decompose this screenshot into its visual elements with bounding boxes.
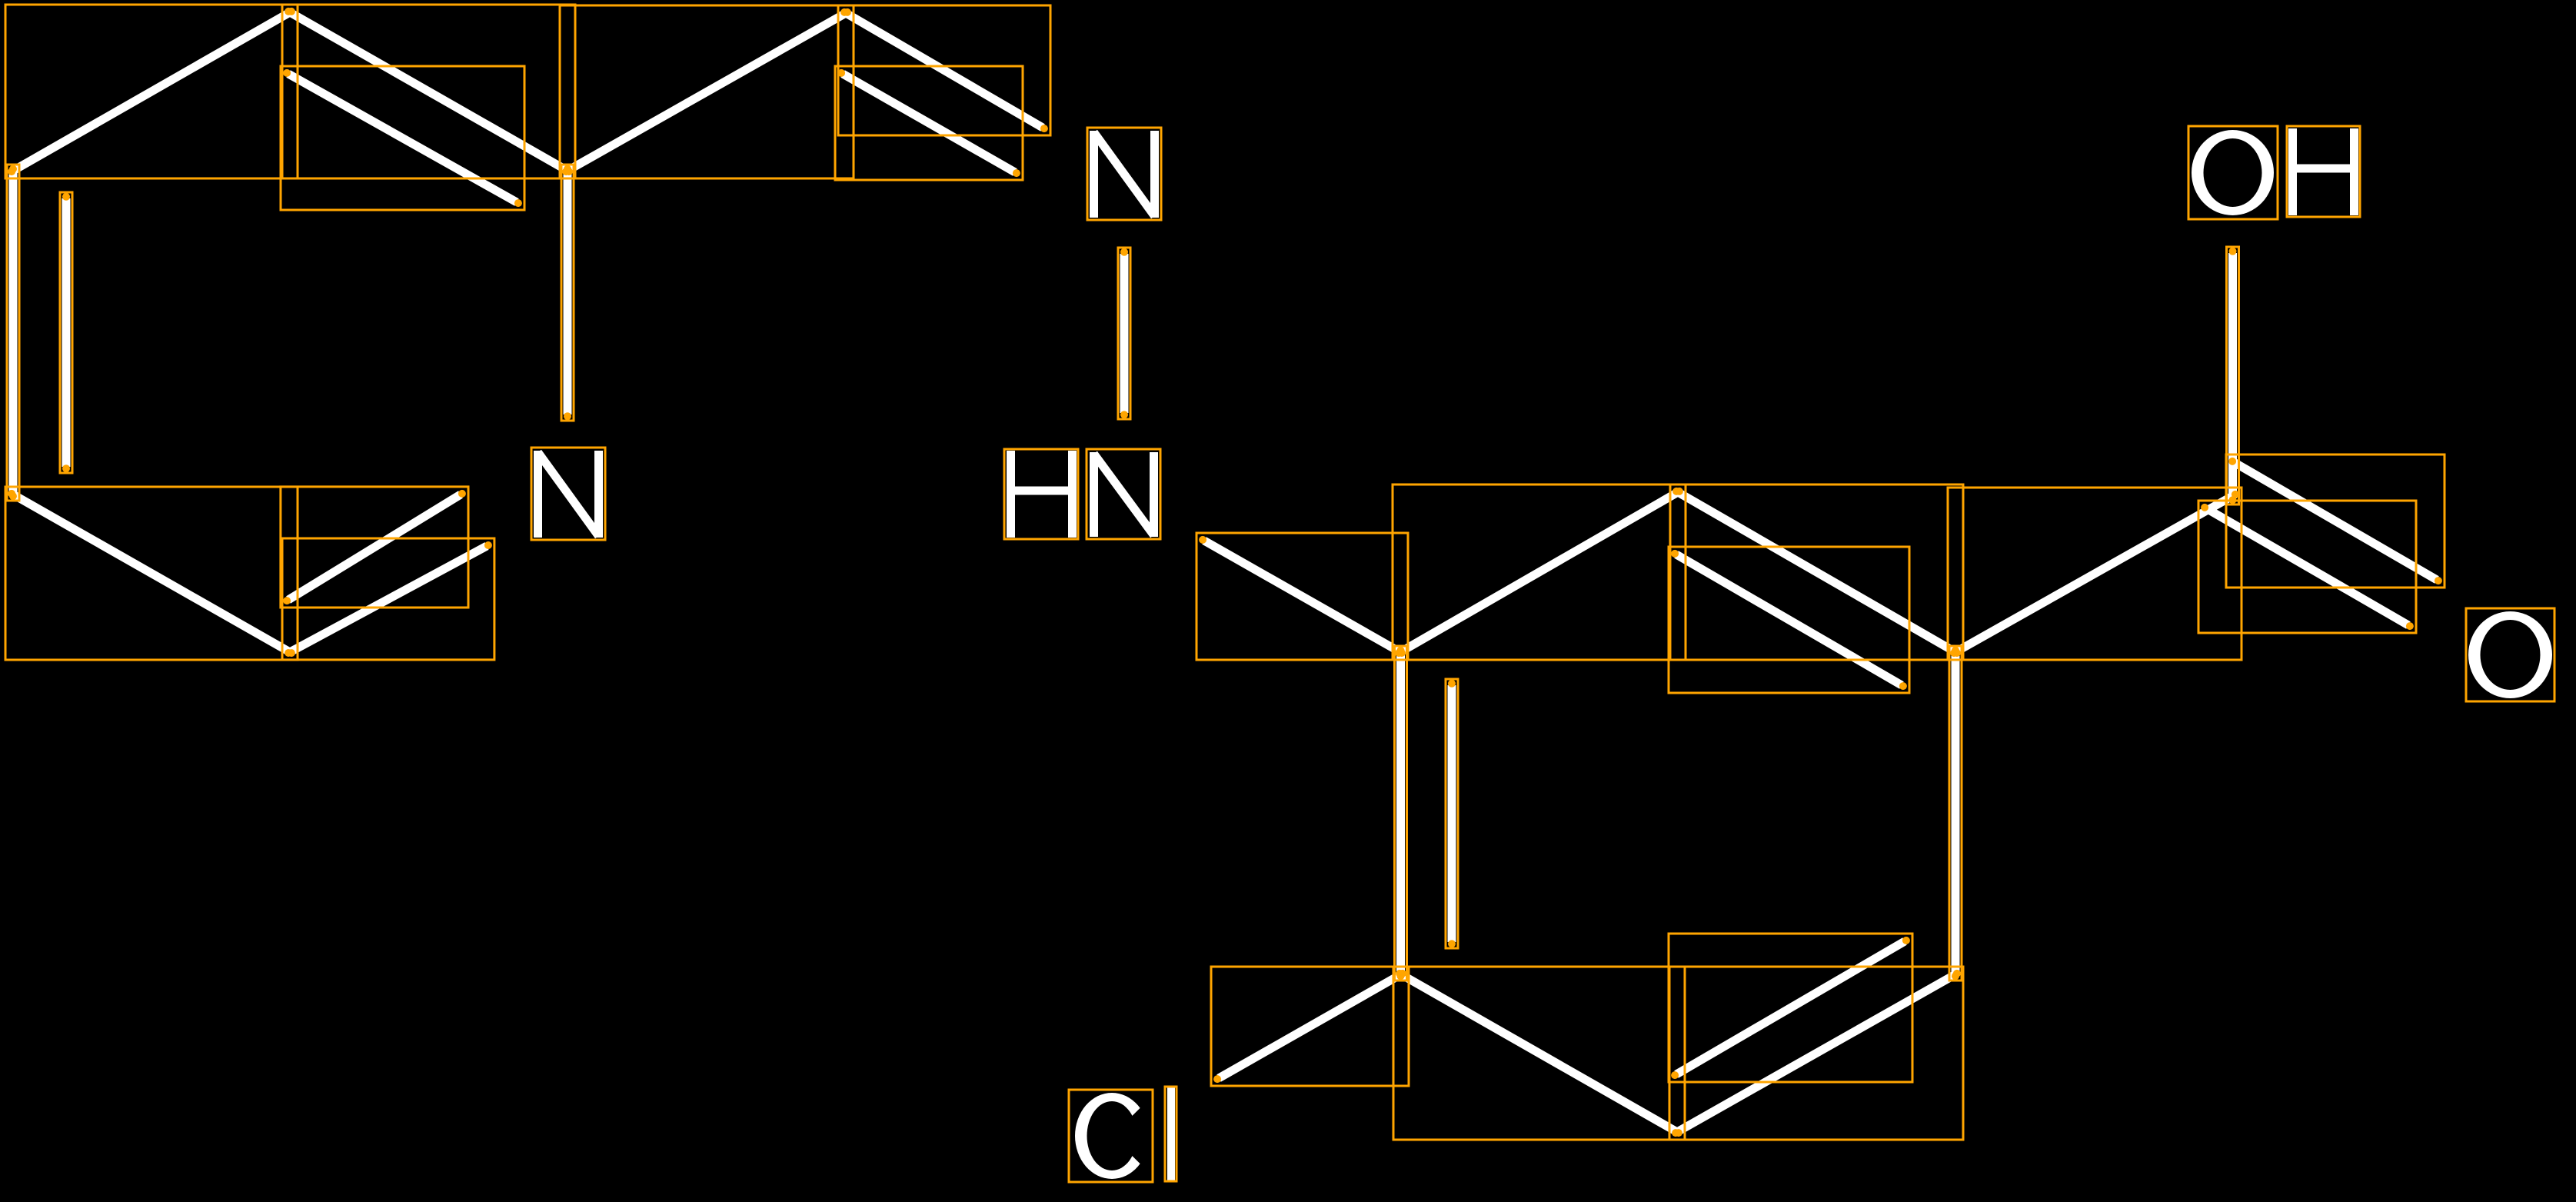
annotation box: atom O carbonyl label <box>2466 608 2554 701</box>
annotation box: bond C4a-C5 (pyridine A-B) <box>5 5 298 178</box>
endpoint dots: bond C6'=C1' inner <box>1448 940 1456 947</box>
bond C5'-C6' (B2-BL) <box>1401 974 1677 1132</box>
annotation box: atom OH label O <box>2188 126 2278 219</box>
annotation box: bond C6-N1 (C-Nring) <box>561 165 574 421</box>
annotation box: atom N1 ring label <box>531 448 605 540</box>
annotation box: bond N-NH (hydrazide) <box>1118 248 1130 419</box>
annotation box: bond C3=C4 main (F-A) <box>7 165 19 501</box>
annotation box: bond CH=N inner <box>835 66 1023 180</box>
atom O carbonyl label <box>2468 611 2552 698</box>
annotation box: bond CH=N main (D-Nh) <box>838 5 1050 135</box>
annotation box: bond C5=C6 main (B-C) <box>282 5 575 178</box>
bond C4'=C5' inner <box>1676 941 1905 1074</box>
annotation box: bond C5=C6 inner <box>281 66 524 210</box>
bond C5=C6 inner <box>288 74 517 202</box>
annotation box: bond C2'=C3' main (T-TR) <box>1670 484 1963 660</box>
endpoint dots: bond C5=C6 main (B-C) <box>285 8 292 15</box>
annotation box: bond NH-C1' (to benzene) <box>1196 533 1408 660</box>
annotation box: atom NH label N <box>1087 449 1160 539</box>
bond C6-N1 (C-Nring) <box>564 171 572 415</box>
bond C-OH <box>2228 253 2237 498</box>
endpoint dots: bond N1=C2 inner <box>458 490 466 498</box>
atom Cl label C <box>1075 1093 1149 1179</box>
endpoint dots: bond C3'-C4' (TR-BR) <box>1952 647 1959 654</box>
annotation box: bond C6'=C1' main (BL-TL) <box>1395 646 1407 981</box>
bond C6'=C1' main (BL-TL) <box>1396 652 1405 974</box>
endpoint dots: bond NH-C1' (to benzene) <box>1199 536 1206 544</box>
endpoint dots: bond C3'-COOH <box>1950 649 1958 657</box>
endpoint dots: bond C2'=C3' main (T-TR) <box>1672 488 1680 495</box>
annotation box: bond C2-C3 (G-F) <box>5 487 298 660</box>
endpoint dots: bond C=O line2 <box>2228 458 2236 465</box>
endpoint dots: bond C3=C4 inner <box>62 464 70 472</box>
endpoint dots: bond N-NH (hydrazide) <box>1120 248 1128 256</box>
annotation box: bond C3=C4 inner <box>60 192 72 473</box>
endpoint dots: bond C5'-C6' (B2-BL) <box>1675 1129 1682 1137</box>
annotation box: bond C3'-COOH <box>1948 488 2242 660</box>
annotation box: bond C=O line1 <box>2198 501 2416 633</box>
endpoint dots: bond CH=N inner <box>837 69 845 77</box>
bond C=O line2 <box>2234 462 2437 580</box>
endpoint dots: bond C4'=C5' main (BR-B2) <box>1953 970 1961 977</box>
bond C4a-C5 (pyridine A-B) <box>13 12 290 171</box>
endpoint dots: bond C6'=C1' main (BL-TL) <box>1397 972 1405 980</box>
bond C2-C3 (G-F) <box>13 494 290 652</box>
bond N1-C2 main (Nring-G) <box>290 546 487 652</box>
annotation box: bond C-OH <box>2227 247 2239 504</box>
endpoint dots: bond CH=N main (D-Nh) <box>840 8 848 16</box>
bond N1=C2 inner <box>288 494 461 600</box>
endpoint dots: bond N1-C2 main (Nring-G) <box>484 541 492 549</box>
endpoint dots: bond C5=C6 inner <box>283 69 291 77</box>
annotation box: bond N1-C2 main (Nring-G) <box>282 538 494 660</box>
atom OH label O <box>2192 130 2274 215</box>
bond C1'-C2' (TL-T) <box>1400 492 1678 652</box>
endpoint dots: bond C4a-C5 (pyridine A-B) <box>8 168 15 175</box>
bond C6-CH (C-D) <box>567 13 846 171</box>
endpoint dots: bond C6'-Cl <box>1399 970 1406 977</box>
annotation box: bond C3'-C4' (TR-BR) <box>1949 646 1962 981</box>
bond C3'-C4' (TR-BR) <box>1952 652 1960 974</box>
annotation box: atom NH label H <box>1004 449 1078 539</box>
annotation box: bond C6'-Cl <box>1211 967 1409 1086</box>
bond N-NH (hydrazide) <box>1120 254 1129 413</box>
annotation box: bond C6'=C1' inner <box>1446 679 1458 948</box>
annotation box: bond C5'-C6' (B2-BL) <box>1393 967 1685 1140</box>
bond C2'=C3' inner <box>1676 554 1902 685</box>
atom Cl label l <box>1167 1087 1175 1180</box>
endpoint dots: bond C1'-C2' (TL-T) <box>1395 649 1403 657</box>
bond C4'=C5' main (BR-B2) <box>1677 974 1955 1132</box>
bond CH=N inner <box>843 74 1015 172</box>
annotation box: bond C2'=C3' inner <box>1669 547 1909 693</box>
bond C6'-Cl <box>1219 974 1401 1078</box>
bond C6'=C1' inner <box>1448 685 1456 942</box>
endpoint dots: bond C6-CH (C-D) <box>562 168 570 175</box>
atom N hydrazone label <box>1094 131 1155 218</box>
annotation box: bond N1=C2 inner <box>281 487 468 608</box>
atom NH label N <box>1094 452 1154 537</box>
bond NH-C1' (to benzene) <box>1204 541 1400 652</box>
endpoint dots: bond C-OH <box>2229 496 2237 504</box>
atom NH label H <box>1011 451 1073 538</box>
atom OH label H <box>2293 128 2355 215</box>
bond CH=N main (D-Nh) <box>846 13 1043 128</box>
bond C3=C4 inner <box>62 198 71 467</box>
bond C3=C4 main (F-A) <box>9 171 18 494</box>
endpoint dots: bond C4'=C5' inner <box>1902 937 1910 944</box>
annotation box: atom Cl label C <box>1069 1090 1153 1182</box>
bond C=O line1 <box>2206 508 2408 625</box>
atom N1 ring label <box>538 451 599 538</box>
bond C5=C6 main (B-C) <box>290 12 567 171</box>
endpoint dots: bond C2-C3 (G-F) <box>288 649 295 657</box>
endpoint dots: bond C2'=C3' inner <box>1671 550 1679 558</box>
endpoint dots: bond C=O line1 <box>2201 504 2208 511</box>
annotation box: atom N hydrazone label <box>1087 128 1161 220</box>
annotation box: atom OH label H <box>2287 126 2360 217</box>
annotation box: bond C=O line2 <box>2226 454 2445 588</box>
annotation box: bond C4'=C5' main (BR-B2) <box>1669 967 1963 1140</box>
annotation box: atom Cl label l <box>1165 1087 1177 1181</box>
annotation box: bond C4'=C5' inner <box>1669 934 1912 1082</box>
bond C3'-COOH <box>1955 495 2234 652</box>
annotation box: bond C1'-C2' (TL-T) <box>1393 484 1686 660</box>
endpoint dots: bond C3=C4 main (F-A) <box>9 492 17 500</box>
endpoint dots: bond C6-N1 (C-Nring) <box>564 165 571 173</box>
annotation box: bond C6-CH (C-D) <box>560 5 854 178</box>
bond C2'=C3' main (T-TR) <box>1678 492 1955 652</box>
